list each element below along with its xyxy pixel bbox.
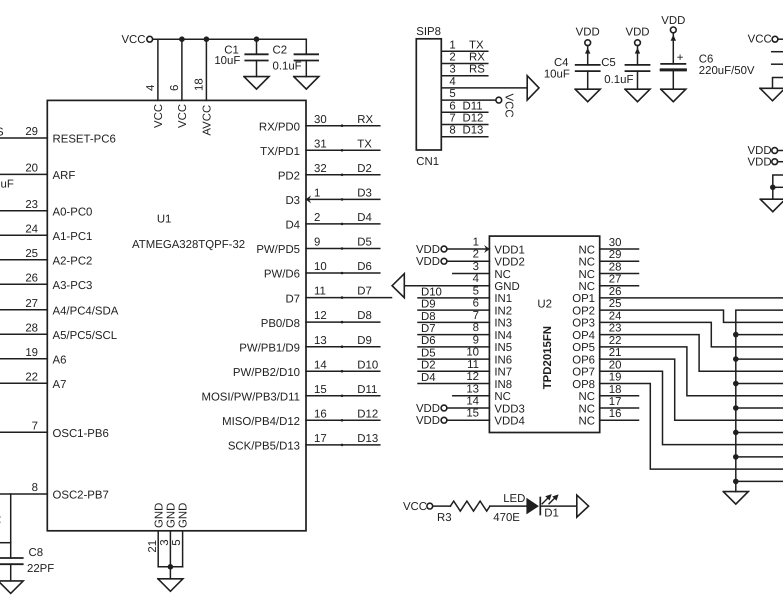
svg-text:GND: GND (153, 503, 165, 528)
svg-text:VDD: VDD (416, 244, 440, 256)
wire stub from off-page crystal (0, 542, 11, 544)
svg-text:D10: D10 (421, 286, 442, 298)
U1 pin 12 PB0/D8 wire to net D8 (261, 310, 380, 330)
svg-text:24: 24 (609, 310, 622, 322)
svg-text:4: 4 (473, 273, 479, 285)
svg-text:D10: D10 (357, 359, 378, 371)
svg-text:2: 2 (473, 249, 479, 261)
svg-text:8: 8 (32, 482, 38, 494)
U1 pin 32 PD2 wire to net D2 (278, 163, 380, 183)
svg-text:D4: D4 (285, 220, 300, 232)
ground bus branch wire to right edge (736, 407, 783, 409)
U1 pin 9 PW/PD5 wire to net D5 (256, 237, 379, 257)
svg-text:D8: D8 (357, 310, 372, 322)
svg-text:21: 21 (147, 540, 159, 553)
CN1 pin 6 wire net D11 (441, 100, 488, 112)
VDD power symbol above C6 (661, 15, 685, 33)
svg-text:27: 27 (25, 298, 38, 310)
ground under C6 (661, 89, 686, 102)
svg-text:OP7: OP7 (572, 367, 595, 379)
CN1 pin 7 wire net D12 (441, 113, 488, 125)
svg-text:6: 6 (169, 85, 181, 91)
U1 pin 26 A3-PC3 wire (0, 272, 92, 291)
svg-text:2: 2 (449, 52, 455, 64)
ground under C2 (294, 77, 319, 90)
svg-text:VCC: VCC (748, 34, 772, 46)
svg-text:NC: NC (579, 244, 595, 256)
svg-text:29: 29 (609, 249, 622, 261)
ground under C4 (575, 89, 600, 102)
U1 pin 2 D4 wire to net D4 (285, 212, 379, 232)
svg-text:4: 4 (145, 85, 157, 91)
svg-text:PW/PB1/D9: PW/PB1/D9 (239, 342, 300, 354)
svg-text:A3-PC3: A3-PC3 (53, 280, 93, 292)
U2 pin 21 OP6 routed wire to right edge (600, 359, 783, 420)
svg-text:11: 11 (467, 359, 479, 371)
ground bus branch wire to right edge (736, 456, 783, 458)
svg-text:VDD: VDD (416, 403, 440, 415)
svg-text:14: 14 (314, 359, 327, 371)
wire stub right edge lower (772, 63, 783, 65)
svg-text:ATMEGA328TQPF-32: ATMEGA328TQPF-32 (132, 239, 245, 251)
svg-text:10uF: 10uF (214, 55, 240, 67)
svg-text:23: 23 (25, 199, 38, 211)
svg-text:VCC: VCC (403, 501, 427, 513)
junction on ground bus (733, 332, 739, 338)
svg-text:30: 30 (609, 237, 622, 249)
svg-text:7: 7 (473, 310, 479, 322)
U2 pin 27 NC (579, 274, 639, 293)
svg-text:19: 19 (25, 347, 38, 359)
VCC rail wire (153, 38, 307, 40)
svg-text:C8: C8 (29, 547, 44, 559)
U1 pin 22 A7 wire (0, 371, 66, 390)
svg-text:5: 5 (473, 285, 479, 297)
CN1 pin 3 wire net RS (441, 64, 488, 76)
svg-text:15: 15 (466, 408, 479, 420)
U2 pin 22 OP5 (572, 335, 621, 354)
svg-text:OP6: OP6 (572, 354, 595, 366)
wire stub from junction to right edge (773, 186, 783, 188)
svg-text:IN1: IN1 (494, 293, 512, 305)
ground bus branch wire to right edge (736, 334, 783, 336)
svg-text:D5: D5 (421, 347, 436, 359)
ground bus branch wire to right edge (736, 480, 783, 482)
connector CN1 SIP8 body (416, 26, 441, 168)
U2 pin 13 NC (453, 383, 511, 403)
svg-text:NC: NC (579, 281, 595, 293)
junction on ground bus (733, 479, 739, 485)
svg-text:NC: NC (579, 269, 595, 281)
U2 pin 4 GND (404, 273, 519, 293)
junction on VCC rail at pin 18 (204, 36, 210, 42)
U2 pin 12 IN8 (418, 371, 512, 391)
capacitor C8 22PF (0, 547, 54, 581)
svg-text:NC: NC (579, 257, 595, 269)
svg-text:D6: D6 (357, 261, 372, 273)
svg-text:VCC: VCC (503, 94, 515, 118)
wire from right edge down to ground mid right (773, 175, 783, 199)
svg-text:RX: RX (357, 114, 373, 126)
U1 pin 6 VCC wire (169, 39, 189, 128)
svg-text:NC: NC (579, 416, 595, 428)
led D1 LED (503, 493, 559, 519)
svg-text:19: 19 (609, 372, 622, 384)
svg-text:26: 26 (609, 286, 622, 298)
svg-text:D9: D9 (421, 299, 436, 311)
svg-text:2: 2 (314, 212, 320, 224)
svg-text:D5: D5 (357, 237, 372, 249)
junction under U1 GND pins (168, 564, 174, 570)
svg-text:D13: D13 (463, 125, 484, 137)
U2 pin 1 VDD1 (416, 237, 525, 257)
svg-text:PB0/D8: PB0/D8 (261, 318, 300, 330)
svg-text:TX/PD1: TX/PD1 (260, 146, 300, 158)
svg-text:MOSI/PW/PB3/D11: MOSI/PW/PB3/D11 (201, 392, 300, 404)
svg-text:NC: NC (494, 269, 510, 281)
ground top right (760, 88, 783, 101)
capacitor C1 10uF (214, 39, 267, 76)
svg-text:6: 6 (449, 100, 455, 112)
svg-text:NC: NC (579, 403, 595, 415)
svg-text:3: 3 (449, 64, 455, 76)
ground bus vertical wire right side (736, 310, 783, 491)
CN1 pin 4 wire (441, 76, 527, 88)
svg-text:GND: GND (494, 281, 519, 293)
svg-text:RX/PD0: RX/PD0 (259, 121, 300, 133)
U2 pin 25 OP2 routed wire to right edge (600, 310, 783, 322)
U1 pin 3 GND wire (159, 503, 178, 567)
svg-text:IN5: IN5 (494, 342, 512, 354)
svg-text:OP3: OP3 (572, 318, 595, 330)
svg-text:IN6: IN6 (494, 354, 512, 366)
svg-text:VCC: VCC (121, 34, 145, 46)
svg-text:NC: NC (579, 391, 595, 403)
junction on ground bus (733, 405, 739, 411)
VDD power symbol above C4 (576, 27, 600, 46)
U2 pin 23 OP4 (572, 323, 621, 342)
svg-text:OP5: OP5 (572, 342, 595, 354)
svg-text:D9: D9 (357, 335, 372, 347)
svg-text:12: 12 (466, 371, 479, 383)
svg-text:D3: D3 (357, 188, 372, 200)
svg-text:SCK/PB5/D13: SCK/PB5/D13 (228, 441, 300, 453)
svg-text:20: 20 (25, 163, 38, 175)
svg-text:D4: D4 (357, 212, 372, 224)
svg-text:31: 31 (314, 138, 327, 150)
svg-text:D7: D7 (421, 323, 436, 335)
svg-text:A6: A6 (53, 354, 67, 366)
svg-text:D12: D12 (357, 408, 378, 420)
U2 pin 23 OP4 routed wire to right edge (600, 335, 783, 372)
svg-text:A1-PC1: A1-PC1 (53, 231, 93, 243)
U2 pin 21 OP6 (572, 347, 621, 366)
svg-text:3: 3 (473, 261, 479, 273)
ground bus branch wire to right edge (736, 431, 783, 433)
U1 pin 14 PW/PB2/D10 wire to net D10 (233, 359, 380, 379)
wire R3 to D1 (490, 505, 527, 507)
U1 pin 19 A6 wire (0, 347, 66, 366)
svg-text:26: 26 (25, 272, 38, 284)
ground bus branch wire to right edge (736, 383, 783, 385)
VCC tap on CN1 pin 5 (496, 94, 515, 118)
U2 pin 15 VDD4 (416, 408, 525, 428)
svg-text:OP1: OP1 (572, 293, 595, 305)
svg-text:IN8: IN8 (494, 379, 512, 391)
U2 pin 24 OP3 routed wire to right edge (600, 322, 783, 346)
U2 pin 10 IN6 (418, 347, 512, 367)
svg-text:22PF: 22PF (27, 563, 54, 575)
svg-text:10: 10 (466, 347, 479, 359)
junction on ground bus (733, 430, 739, 436)
svg-text:OSC2-PB7: OSC2-PB7 (53, 490, 109, 502)
wire D1 to arrow (540, 505, 576, 507)
svg-text:10: 10 (314, 261, 327, 273)
svg-text:22: 22 (25, 371, 38, 383)
svg-text:VDD: VDD (416, 256, 440, 268)
svg-text:9: 9 (314, 237, 320, 249)
U1 pin 10 PW/D6 wire to net D6 (264, 261, 380, 281)
GND stem under U1 (169, 567, 171, 579)
svg-text:A0-PC0: A0-PC0 (53, 206, 93, 218)
svg-text:C2: C2 (273, 45, 288, 57)
U1 pin 27 A4/PC4/SDA wire (0, 298, 119, 317)
VCC power symbol top-left (121, 34, 152, 46)
svg-text:VDD: VDD (416, 415, 440, 427)
U1 pin 30 RX/PD0 wire to net RX (259, 114, 380, 134)
U1 pin 20 ARF wire (0, 163, 75, 182)
svg-text:VDD3: VDD3 (494, 403, 524, 415)
VDD power symbol right edge upper (748, 145, 783, 157)
svg-text:D11: D11 (463, 100, 483, 112)
svg-text:24: 24 (25, 223, 38, 235)
signal arrow on U2 pin 4 GND wire (392, 274, 404, 298)
svg-text:OSC1-PB6: OSC1-PB6 (53, 428, 109, 440)
signal arrow on CN1 pin 4 (527, 76, 539, 100)
svg-text:D11: D11 (357, 384, 377, 396)
svg-text:OP4: OP4 (572, 330, 595, 342)
U1 pin 24 A1-PC1 wire (0, 223, 92, 242)
svg-text:VDD: VDD (748, 145, 772, 157)
svg-text:470E: 470E (493, 512, 520, 524)
svg-text:U1: U1 (157, 213, 172, 225)
svg-text:1: 1 (314, 188, 320, 200)
svg-text:IN4: IN4 (494, 330, 512, 342)
svg-text:NC: NC (494, 391, 510, 403)
ground mid right (760, 199, 783, 212)
svg-text:13: 13 (314, 335, 327, 347)
svg-text:TPD2015FN: TPD2015FN (542, 326, 554, 389)
svg-text:D1: D1 (544, 507, 559, 519)
ground under C5 (625, 89, 650, 102)
capacitor C4 10uF (544, 46, 600, 90)
svg-text:IN7: IN7 (494, 367, 512, 379)
svg-text:VDD: VDD (576, 27, 600, 39)
svg-text:AVCC: AVCC (202, 105, 214, 136)
svg-text:7: 7 (32, 420, 38, 432)
svg-text:25: 25 (609, 298, 622, 310)
svg-text:D12: D12 (463, 113, 484, 125)
svg-text:10uF: 10uF (544, 69, 570, 81)
svg-text:8: 8 (473, 322, 479, 334)
ground under C1 (244, 77, 269, 90)
svg-text:OP8: OP8 (572, 379, 595, 391)
GND joining wire under U1 (158, 566, 182, 568)
capacitor C2 0.1uF (273, 39, 319, 76)
svg-text:20: 20 (609, 359, 622, 371)
U1 pin 1 D3 wire to net D3 (285, 188, 379, 208)
svg-text:CN1: CN1 (416, 156, 439, 168)
U2 pin 29 NC (579, 249, 639, 268)
svg-text:VDD1: VDD1 (494, 244, 524, 256)
U1 pin 29 RESET-PC6 wire (0, 126, 116, 145)
svg-text:14: 14 (466, 395, 479, 407)
VCC power symbol at right edge (748, 34, 783, 46)
svg-text:13: 13 (466, 383, 479, 395)
capacitor C6 220uF/50V electrolytic (661, 33, 755, 89)
svg-text:TX: TX (469, 39, 484, 51)
U1 pin 15 MOSI/PW/PB3/D11 wire to net D11 (201, 384, 379, 404)
VDD power symbol above C5 (625, 27, 649, 46)
U2 pin 20 OP7 (572, 359, 621, 378)
ground under U1 (158, 579, 183, 592)
svg-text:0.1uF: 0.1uF (273, 61, 302, 73)
junction on VCC rail at C1 (254, 36, 260, 42)
CN1 pin 5 wire (441, 88, 496, 100)
svg-text:5: 5 (171, 539, 183, 545)
capacitor C5 0.1uF (601, 46, 649, 90)
svg-text:4: 4 (449, 76, 455, 88)
svg-text:IN3: IN3 (494, 318, 512, 330)
svg-text:9: 9 (473, 334, 479, 346)
svg-text:VDD: VDD (625, 27, 649, 39)
U1 pin 23 A0-PC0 wire (0, 199, 92, 218)
svg-text:11: 11 (314, 286, 326, 298)
svg-text:A5/PC5/SCL: A5/PC5/SCL (53, 330, 118, 342)
svg-text:IN2: IN2 (494, 305, 512, 317)
svg-text:25: 25 (25, 248, 38, 260)
svg-text:23: 23 (609, 323, 622, 335)
ground under C8 (0, 581, 23, 594)
svg-text:VDD: VDD (748, 156, 772, 168)
junction on ground bus (733, 381, 739, 387)
U2 pin 9 IN5 (418, 334, 512, 354)
U2 pin 30 NC (579, 237, 639, 256)
svg-text:A2-PC2: A2-PC2 (53, 255, 93, 267)
svg-text:30: 30 (314, 114, 327, 126)
U2 pin 26 OP1 (572, 286, 621, 305)
svg-text:32: 32 (314, 163, 327, 175)
VDD power symbol right edge lower (748, 156, 783, 168)
svg-text:D2: D2 (421, 360, 436, 372)
svg-text:S: S (0, 127, 4, 139)
svg-text:D6: D6 (421, 335, 436, 347)
U2 pin 19 OP8 (572, 372, 621, 391)
svg-text:VDD: VDD (661, 15, 685, 27)
svg-text:LED: LED (503, 493, 525, 505)
junction on VCC rail at pin 6 (179, 36, 185, 42)
svg-text:28: 28 (25, 322, 38, 334)
U2 pin 5 IN1 (418, 285, 512, 305)
svg-text:7: 7 (449, 113, 455, 125)
svg-text:220uF/50V: 220uF/50V (699, 65, 755, 77)
signal arrow after D1 (577, 495, 589, 517)
U2 pin 6 IN2 (418, 298, 512, 318)
svg-text:C4: C4 (554, 57, 569, 69)
svg-text:17: 17 (314, 433, 327, 445)
svg-text:U2: U2 (537, 299, 552, 311)
svg-text:22: 22 (609, 335, 622, 347)
svg-text:1: 1 (473, 237, 479, 249)
svg-text:1: 1 (449, 39, 455, 51)
svg-text:27: 27 (609, 274, 622, 286)
svg-text:18: 18 (609, 384, 622, 396)
U2 pin 11 IN7 (418, 359, 512, 379)
svg-text:SIP8: SIP8 (416, 26, 441, 38)
svg-text:PW/PD5: PW/PD5 (256, 244, 300, 256)
U2 pin 28 NC (579, 261, 639, 280)
svg-text:PW/D6: PW/D6 (264, 269, 300, 281)
svg-text:OP2: OP2 (572, 305, 595, 317)
wire VCC to R3 (433, 505, 451, 507)
U1 pin 13 PW/PB1/D9 wire to net D9 (239, 335, 380, 355)
svg-text:uF: uF (1, 179, 14, 191)
svg-text:28: 28 (609, 261, 622, 273)
svg-text:VDD2: VDD2 (494, 257, 524, 269)
U2 pin 25 OP2 (572, 298, 621, 317)
wire from right edge to ground (773, 78, 783, 89)
svg-text:RS: RS (469, 64, 485, 76)
U2 pin 16 NC (579, 408, 639, 427)
U2 pin 18 NC (579, 384, 639, 403)
svg-text:GND: GND (166, 503, 178, 528)
junction on ground bus (733, 356, 739, 362)
svg-text:29: 29 (25, 126, 38, 138)
svg-text:VCC: VCC (153, 104, 165, 128)
svg-text:12: 12 (314, 310, 327, 322)
svg-text:21: 21 (609, 347, 622, 359)
svg-text:C5: C5 (601, 57, 616, 69)
svg-text:D4: D4 (421, 372, 436, 384)
CN1 pin 2 wire net RX (441, 52, 488, 64)
svg-text:16: 16 (609, 408, 622, 420)
svg-text:16: 16 (314, 408, 327, 420)
U1 pin 31 TX/PD1 wire to net TX (260, 138, 380, 158)
U1 pin 7 OSC1-PB6 wire (0, 420, 109, 439)
wire from OSC2 to C8 (10, 494, 12, 558)
U2 pin 19 OP8 routed wire to right edge (600, 384, 783, 470)
U1 pin 25 A2-PC2 wire (0, 248, 92, 267)
svg-text:3: 3 (159, 539, 171, 545)
U2 pin 8 IN4 (418, 322, 512, 342)
U1 pin 4 VCC wire (145, 39, 165, 128)
svg-text:GND: GND (178, 503, 190, 528)
svg-text:A4/PC4/SDA: A4/PC4/SDA (53, 305, 119, 317)
svg-text:D13: D13 (357, 433, 378, 445)
U2 pin 3 NC (453, 261, 511, 281)
svg-text:D2: D2 (357, 163, 372, 175)
resistor R3 470E (437, 501, 520, 524)
svg-text:C6: C6 (699, 53, 714, 65)
svg-text:A7: A7 (53, 379, 67, 391)
svg-text:PD2: PD2 (278, 171, 300, 183)
U2 pin 17 NC (579, 396, 639, 415)
ground at bus bottom (723, 492, 748, 505)
U1 pin 18 AVCC wire (193, 39, 213, 135)
svg-text:VCC: VCC (177, 104, 189, 128)
U2 pin 22 OP5 routed wire to right edge (600, 347, 783, 396)
CN1 pin 1 wire net TX (441, 39, 488, 51)
